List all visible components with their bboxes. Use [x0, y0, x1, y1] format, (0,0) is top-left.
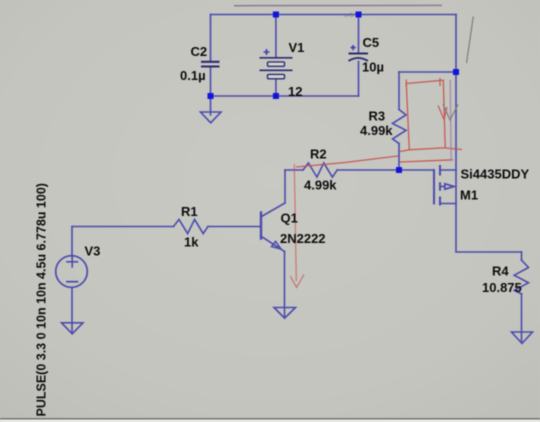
- svg-text:12: 12: [288, 84, 302, 99]
- svg-text:PULSE(0 3.3 0 10n 10n 4.5u 6.7: PULSE(0 3.3 0 10n 10n 4.5u 6.778u 100): [35, 183, 49, 416]
- svg-text:R1: R1: [181, 204, 198, 219]
- svg-text:R4: R4: [492, 264, 509, 279]
- svg-text:V3: V3: [85, 244, 101, 259]
- svg-text:4.99k: 4.99k: [360, 123, 393, 138]
- svg-text:Si4435DDY: Si4435DDY: [461, 167, 530, 182]
- svg-text:0.1µ: 0.1µ: [180, 68, 206, 83]
- svg-text:R2: R2: [310, 147, 327, 162]
- svg-text:2N2222: 2N2222: [280, 231, 326, 246]
- svg-text:4.99k: 4.99k: [304, 178, 337, 193]
- svg-text:10µ: 10µ: [362, 60, 384, 75]
- svg-text:C5: C5: [363, 35, 380, 50]
- svg-text:V1: V1: [289, 40, 305, 55]
- svg-text:Q1: Q1: [281, 210, 298, 225]
- svg-text:C2: C2: [191, 44, 208, 59]
- svg-text:M1: M1: [460, 188, 478, 203]
- svg-text:1k: 1k: [184, 235, 199, 250]
- svg-text:10.875: 10.875: [482, 280, 522, 295]
- svg-text:R3: R3: [369, 109, 386, 124]
